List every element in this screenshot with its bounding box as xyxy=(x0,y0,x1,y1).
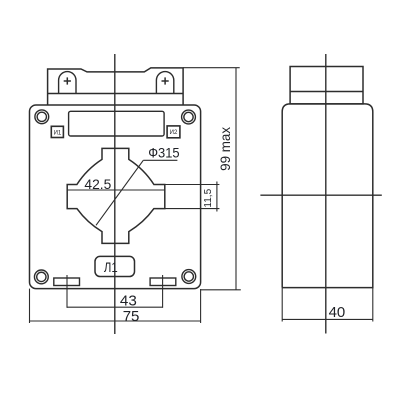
svg-text:Ф315: Ф315 xyxy=(148,145,179,160)
svg-text:И1: И1 xyxy=(54,130,62,136)
svg-text:11,5: 11,5 xyxy=(203,188,214,207)
svg-text:42.5: 42.5 xyxy=(84,177,111,192)
svg-text:40: 40 xyxy=(329,304,346,321)
svg-text:99 max: 99 max xyxy=(218,127,233,171)
svg-text:Л1: Л1 xyxy=(104,259,118,275)
svg-text:И2: И2 xyxy=(170,130,178,136)
svg-text:43: 43 xyxy=(120,292,137,309)
svg-text:75: 75 xyxy=(123,308,140,325)
